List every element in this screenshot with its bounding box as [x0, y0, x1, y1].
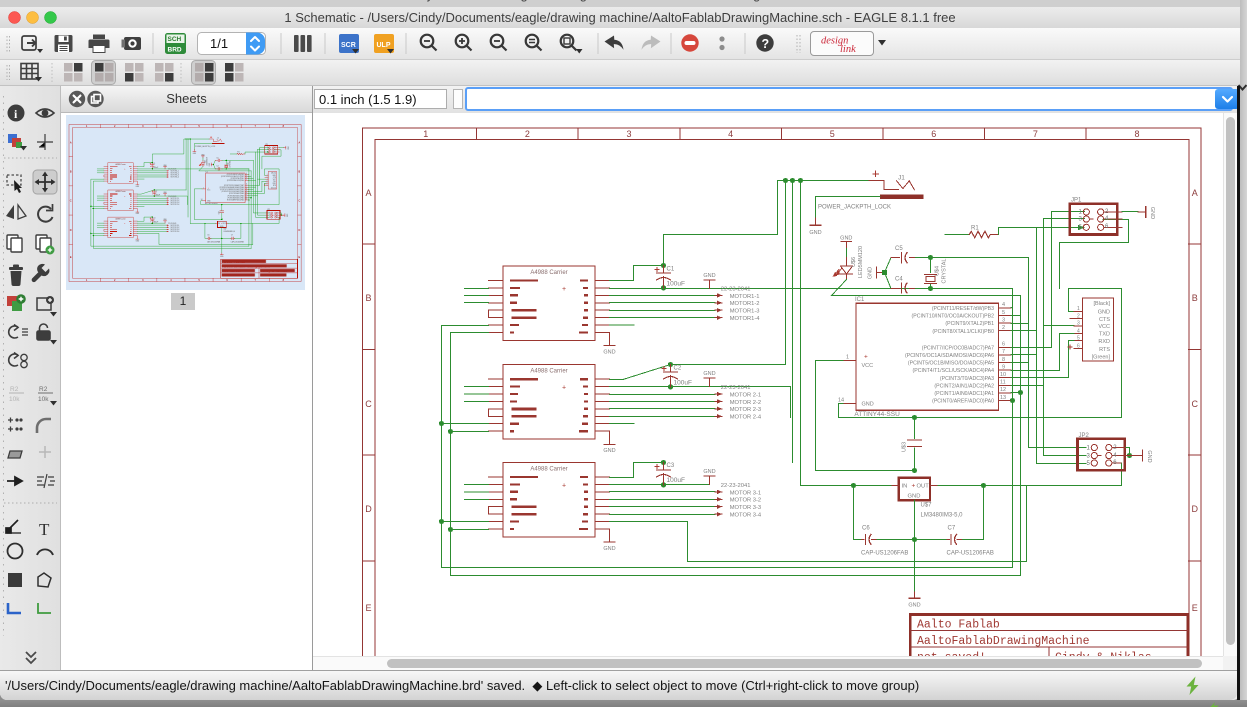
- FTDI serial header U$5: [1068, 298, 1113, 361]
- header JP2: [1078, 433, 1139, 470]
- replace/lock: [37, 324, 57, 345]
- status bar: [0, 670, 1237, 700]
- svg-text:4: 4: [1077, 328, 1080, 334]
- svg-text:5: 5: [1002, 310, 1005, 316]
- svg-text:GND: GND: [1149, 207, 1155, 219]
- junction bus A to drv3: [439, 519, 444, 524]
- svg-text:C: C: [365, 399, 372, 409]
- wire pin12 riser V2: [1011, 296, 1021, 576]
- optimize: [7, 477, 22, 485]
- svg-text:(PCINT1/AIN0/ADC1)PA1: (PCINT1/AIN0/ADC1)PA1: [934, 391, 994, 397]
- delete: [9, 265, 23, 287]
- invoke: [37, 296, 57, 317]
- svg-text:MOTOR 3-4: MOTOR 3-4: [730, 513, 762, 519]
- svg-text:11: 11: [1000, 380, 1006, 386]
- svg-text:C6: C6: [862, 526, 870, 532]
- svg-text:GND: GND: [868, 267, 874, 279]
- title bar: [0, 7, 1240, 29]
- svg-text:4: 4: [1002, 302, 1005, 308]
- svg-text:4: 4: [728, 129, 733, 139]
- info: [8, 105, 25, 122]
- svg-text:ATTINY44-SSU: ATTINY44-SSU: [854, 411, 900, 418]
- ground at JP1 (rotated): [1138, 206, 1155, 219]
- svg-text:(PCINT6/OC1A/SDA/MOSI/ADC6)PA6: (PCINT6/OC1A/SDA/MOSI/ADC6)PA6: [905, 353, 994, 359]
- copy: [7, 235, 22, 252]
- svg-text:T: T: [39, 520, 50, 539]
- wire pin2: [1011, 330, 1037, 332]
- svg-text:MOTOR1-3: MOTOR1-3: [730, 309, 760, 315]
- undo icon: [605, 36, 624, 50]
- wire jack sleeve to ground: [816, 197, 880, 219]
- svg-text:A: A: [365, 188, 371, 198]
- junction on +12V top bus at dropper 4: [798, 178, 803, 183]
- design link button: [811, 32, 887, 56]
- svg-text:5: 5: [830, 129, 835, 139]
- svg-text:D: D: [365, 504, 372, 514]
- junction on +12V top bus at dropper 2: [783, 178, 788, 183]
- svg-text:2: 2: [1002, 325, 1005, 331]
- stop icon: [681, 34, 698, 51]
- wire pin5: [1011, 315, 1021, 317]
- junction bus B to drv3: [448, 527, 453, 532]
- drawing frame: [363, 128, 1202, 695]
- svg-text:MOTOR1-4: MOTOR1-4: [730, 316, 761, 322]
- sheets panel: [61, 86, 313, 670]
- svg-text:LED5MM120: LED5MM120: [858, 246, 864, 278]
- svg-text:CTS: CTS: [1099, 317, 1110, 323]
- svg-text:R2: R2: [39, 386, 48, 393]
- zoom in icon: [456, 35, 472, 51]
- junction regulator input / C6 branch: [851, 483, 856, 488]
- junction JP2 pin4 gnd: [1127, 453, 1132, 458]
- svg-text:(PCINT11/RESET/dW)PB3: (PCINT11/RESET/dW)PB3: [932, 306, 994, 312]
- svg-text:3: 3: [1079, 217, 1083, 223]
- svg-text:1: 1: [1077, 306, 1080, 312]
- redo icon (disabled): [642, 36, 661, 50]
- voltage regulator U$7 LM3480IM3-5,0: [892, 478, 963, 519]
- wire regulator input rail: [801, 463, 1122, 486]
- polygonize: [8, 451, 22, 458]
- svg-text:C: C: [1192, 399, 1199, 409]
- svg-text:1: 1: [1087, 446, 1091, 452]
- wire bus A taps to drv2/drv3: [442, 424, 489, 522]
- wire pin9 to FTDI TXD: [1011, 334, 1060, 371]
- SCH/BRD badge: [165, 33, 186, 54]
- svg-text:U$4: U$4: [935, 266, 941, 276]
- svg-text:VCC: VCC: [862, 363, 874, 369]
- svg-text:U$6: U$6: [851, 257, 857, 267]
- wire JP1 pin1 feed: [1051, 212, 1053, 348]
- header JP1: [1070, 198, 1122, 235]
- svg-text:C4: C4: [895, 276, 903, 282]
- svg-text:(PCINT8/XTAL1/CLKI)PB0: (PCINT8/XTAL1/CLKI)PB0: [932, 329, 994, 335]
- microcontroller IC1 ATTINY44-SSU: [838, 297, 1011, 418]
- svg-text:10k: 10k: [38, 396, 49, 403]
- motor 1 header arrows + labels: [715, 287, 760, 323]
- capacitor C5: [891, 246, 931, 263]
- svg-text:1/1: 1/1: [210, 36, 228, 51]
- miter: [37, 419, 51, 433]
- wrench: [32, 264, 50, 282]
- svg-text:CAP-US1206FAB: CAP-US1206FAB: [861, 551, 908, 557]
- svg-text:(PCINT10/INT0/OC0A/CKOUT)PB2: (PCINT10/INT0/OC0A/CKOUT)PB2: [912, 314, 995, 320]
- wire pin3: [1011, 323, 1029, 325]
- svg-text:MOTOR 2-4: MOTOR 2-4: [730, 415, 762, 421]
- add part: [7, 294, 26, 311]
- svg-text:10: 10: [1000, 372, 1006, 378]
- wire pin10 to FTDI RXD: [1011, 341, 1069, 378]
- resistor R1: [945, 225, 1085, 238]
- svg-text:6: 6: [1077, 344, 1080, 350]
- svg-text:link: link: [840, 44, 856, 55]
- svg-text:MOTOR 2-3: MOTOR 2-3: [730, 407, 761, 413]
- stepper driver module 3 (A4988 Carrier): [489, 463, 616, 553]
- zoom select icon: [491, 35, 507, 51]
- capacitor C3 100uF: [655, 460, 685, 488]
- split (disabled): [39, 446, 51, 458]
- svg-text:1: 1: [423, 129, 428, 139]
- wire drv3 motor pins: [610, 492, 716, 515]
- wire drv1 VMOT pin to C1: [610, 265, 664, 280]
- svg-text:7: 7: [1033, 129, 1038, 139]
- image/camera icon: [122, 37, 142, 50]
- wire FTDI TXD/RXD tails: [1060, 334, 1074, 341]
- svg-text:(PCINT9/XTAL2)PB1: (PCINT9/XTAL2)PB1: [945, 321, 994, 327]
- wire drv1 GND pin to C1 bottom / GND rail: [610, 288, 1013, 290]
- svg-text:LM3480IM3-5,0: LM3480IM3-5,0: [921, 513, 964, 519]
- svg-text:CRYSTAL: CRYSTAL: [942, 259, 948, 284]
- pin 1 VCC stub: [843, 360, 856, 362]
- wire V4: R1 net to JP2 pin5: [1037, 228, 1087, 464]
- gateswap: [9, 353, 28, 368]
- crystal U$4: [925, 255, 948, 291]
- svg-text:MOTOR 2-1: MOTOR 2-1: [730, 392, 761, 398]
- svg-text:+: +: [864, 354, 868, 361]
- wire IC1 VCC to 5V rail: [816, 361, 915, 471]
- value R2/10k disabled: [9, 386, 24, 403]
- svg-text:D: D: [1192, 504, 1199, 514]
- svg-text:SCH: SCH: [168, 36, 182, 43]
- svg-text:13: 13: [1000, 395, 1006, 401]
- wire bus A riser: [1026, 486, 1028, 562]
- wire cap common diagonals: [885, 258, 892, 289]
- ground at JP2 (rotated): [1130, 450, 1153, 463]
- pinswap: [9, 325, 28, 339]
- pin 14 GND stub: [843, 402, 856, 404]
- wire left vertical bus B (dir chain): [451, 333, 1021, 576]
- paste: [36, 235, 55, 255]
- svg-text:3: 3: [1002, 317, 1005, 323]
- svg-text:GND: GND: [840, 236, 852, 242]
- capacitor C8 decoupling under IC1: [902, 418, 922, 471]
- background (Board) window slivers: [0, 0, 1247, 7]
- right pin stubs: [999, 308, 1011, 401]
- junction IC1 gnd rail / C8: [912, 415, 917, 420]
- pin array: [8, 418, 23, 432]
- svg-text:OUT: OUT: [917, 483, 930, 489]
- title block: [910, 615, 1188, 684]
- svg-text:IC1: IC1: [855, 297, 865, 303]
- SCR badge: [339, 34, 359, 54]
- grid icon: [21, 64, 38, 80]
- circle tool: [8, 544, 23, 559]
- wire LED anode net: [832, 280, 1021, 296]
- svg-text:2: 2: [1077, 314, 1080, 320]
- wire pin7: [1011, 354, 1037, 356]
- wire bus B taps to drv2/drv3: [451, 432, 489, 530]
- svg-text:C5: C5: [895, 246, 903, 252]
- svg-text:GND: GND: [908, 603, 920, 609]
- stepper driver module 2 (A4988 Carrier): [489, 365, 616, 455]
- svg-text:SCR: SCR: [341, 42, 356, 49]
- black window edge: [1237, 86, 1240, 700]
- junction IC1 pin13 to riser V1: [1010, 398, 1015, 403]
- svg-text:6: 6: [931, 129, 936, 139]
- left tool palette: [0, 86, 61, 670]
- svg-text:BRD: BRD: [168, 47, 182, 54]
- export icon: [22, 36, 36, 50]
- vertical scrollbar: [1223, 113, 1237, 656]
- canvas top bar: coordinates + command combo: [313, 86, 1240, 113]
- svg-text:3: 3: [1077, 321, 1080, 327]
- capacitor C1 100uF: [655, 263, 685, 291]
- wire IC right pin fan to channel verticals: [1011, 212, 1129, 576]
- svg-text:3: 3: [626, 129, 631, 139]
- arc tool: [37, 549, 53, 555]
- svg-text:IN: IN: [902, 483, 908, 489]
- mirror: [6, 205, 26, 219]
- svg-text:U$7: U$7: [921, 503, 933, 509]
- svg-text:MOTOR 3-2: MOTOR 3-2: [730, 498, 761, 504]
- svg-text:AaltoFablabDrawingMachine: AaltoFablabDrawingMachine: [917, 635, 1090, 648]
- svg-text:R2: R2: [10, 386, 19, 393]
- capacitor C2 100uF: [662, 362, 692, 390]
- svg-text:B: B: [1192, 293, 1198, 303]
- svg-text:ULP: ULP: [377, 42, 391, 49]
- toolbar row 2: [0, 59, 1240, 86]
- wire drv2 enable stub: [610, 423, 634, 425]
- svg-text:22-23-2041: 22-23-2041: [721, 483, 751, 489]
- svg-text:C3: C3: [667, 463, 675, 469]
- print icon: [89, 35, 110, 53]
- wire drv3 VMOT pin to C3: [610, 463, 664, 478]
- wire FTDI VCC: [1044, 325, 1074, 327]
- zoom redraw icon: [561, 35, 577, 51]
- ground at regulator: [908, 592, 920, 609]
- wire +12V top bus with droppers: [664, 181, 869, 486]
- expand chevron: [26, 652, 36, 663]
- layers: [8, 134, 27, 151]
- svg-text:(PCINT4/T1/SCL/USCK/ADC4)PA4: (PCINT4/T1/SCL/USCK/ADC4)PA4: [913, 368, 995, 374]
- svg-text:1: 1: [846, 355, 849, 361]
- junction bus A to drv2: [439, 421, 444, 426]
- thumbnail: [66, 115, 305, 290]
- horizontal scrollbar: [313, 656, 1223, 670]
- svg-text:MOTOR1-2: MOTOR1-2: [730, 301, 760, 307]
- svg-text:B: B: [365, 293, 371, 303]
- wire drv3 input nets left: [465, 484, 489, 499]
- wire JP1 pin2 to ground stub: [1122, 211, 1138, 213]
- signal/line: [6, 520, 21, 533]
- power jack J1 POWER_JACKPTH_LOCK: [818, 171, 923, 210]
- wire pin4: [1011, 307, 1013, 309]
- motor 2 header arrows + labels: [715, 385, 762, 421]
- stepper driver module 1 (A4988 Carrier): [489, 266, 616, 356]
- svg-text:?: ?: [762, 37, 770, 51]
- bus tool: [8, 603, 21, 613]
- wire crystal nets to channel: [931, 258, 1029, 289]
- wire drv2 input nets left: [465, 387, 489, 402]
- zoom out icon: [421, 35, 437, 51]
- ground at C1: [703, 273, 715, 289]
- mark cross: [37, 134, 53, 150]
- options dots: [719, 36, 724, 41]
- move (active): [33, 170, 57, 194]
- svg-text:100uF: 100uF: [674, 380, 692, 387]
- ground at C2: [703, 371, 715, 387]
- eye: [36, 109, 54, 117]
- wire drv3 enable to +12V bus A: [610, 522, 1027, 562]
- svg-text:C1: C1: [667, 267, 675, 273]
- save icon: [55, 35, 73, 52]
- svg-text:(PCINT0/AREF/ADC0)PA0: (PCINT0/AREF/ADC0)PA0: [932, 399, 994, 405]
- svg-text:100uF: 100uF: [667, 281, 685, 288]
- ground at J1: [809, 218, 821, 236]
- capacitor C4: [891, 276, 931, 293]
- toolbar row 1: [0, 28, 1240, 59]
- svg-text:8: 8: [1002, 357, 1005, 363]
- wire JP2 pin2 to pin4/ground: [1126, 448, 1130, 456]
- svg-text:MOTOR 2-2: MOTOR 2-2: [730, 400, 761, 406]
- wire left vertical bus A (step chain): [442, 326, 1013, 568]
- motor 3 header arrows + labels: [715, 483, 762, 519]
- svg-text:GND: GND: [1146, 450, 1152, 462]
- wire drv2 motor pins: [610, 395, 716, 417]
- wire drv1 enable stub: [610, 324, 634, 326]
- ground at C3: [703, 469, 715, 485]
- svg-text:(PCINT7/ICP/OC0B/ADC7)PA7: (PCINT7/ICP/OC0B/ADC7)PA7: [922, 345, 994, 351]
- junction VCC rail / C8: [912, 468, 917, 473]
- wire JP1 pin3 feed: [1044, 218, 1085, 220]
- svg-text:TXD: TXD: [1099, 332, 1110, 338]
- svg-text:14: 14: [838, 397, 844, 403]
- svg-text:100uF: 100uF: [667, 477, 685, 484]
- svg-text:22-23-2041: 22-23-2041: [721, 287, 751, 293]
- svg-text:E: E: [365, 603, 371, 613]
- svg-text:C2: C2: [674, 366, 682, 372]
- junction bus B to drv2: [448, 429, 453, 434]
- junction C6/C7 gnd row: [912, 537, 917, 542]
- svg-text:C7: C7: [948, 526, 956, 532]
- svg-text:POWER_JACKPTH_LOCK: POWER_JACKPTH_LOCK: [818, 205, 891, 211]
- wire regulator gnd leg: [914, 500, 916, 592]
- wire drv2 GND pin to C2 bottom: [610, 387, 791, 418]
- svg-text:5: 5: [1087, 461, 1091, 467]
- svg-text:GND: GND: [809, 230, 821, 236]
- wire C6 branch: [854, 486, 984, 540]
- svg-text:[Black]: [Black]: [1093, 301, 1110, 307]
- svg-text:3: 3: [1087, 454, 1091, 460]
- wire drv3 GND pin to C3 bottom: [610, 484, 710, 486]
- svg-text:(PCINT2/AIN1/ADC2)PA2: (PCINT2/AIN1/ADC2)PA2: [934, 383, 994, 389]
- svg-text:MOTOR 3-1: MOTOR 3-1: [730, 490, 761, 496]
- window layout icons: [63, 62, 84, 83]
- svg-text:GND: GND: [908, 494, 921, 500]
- sheet spinner 1/1: [198, 33, 266, 55]
- value R2/10k: [38, 386, 57, 406]
- ULP badge: [374, 34, 394, 54]
- capacitor C7: [947, 526, 994, 557]
- svg-text:MOTOR 3-3: MOTOR 3-3: [730, 505, 761, 511]
- library bars icon: [294, 35, 312, 52]
- main canvas: [313, 113, 1223, 656]
- svg-text:GND: GND: [1098, 310, 1110, 316]
- svg-text:12: 12: [1000, 387, 1006, 393]
- svg-text:[Green]: [Green]: [1092, 355, 1111, 361]
- svg-text:VCC: VCC: [1098, 324, 1110, 330]
- junction regulator output / C7 branch: [981, 483, 986, 488]
- svg-text:(PCINT3/T0/ADC3)PA3: (PCINT3/T0/ADC3)PA3: [940, 376, 994, 382]
- wire drv2 VMOT pin diagonal to C2: [610, 365, 786, 380]
- wire V5: JP1 pin3 to JP2 pin3: [1044, 219, 1087, 456]
- wire pin6 to JP1 pin1: [1011, 212, 1085, 348]
- wire pin11: [1011, 385, 1044, 387]
- svg-text:U$3: U$3: [902, 442, 908, 452]
- wire JP1 pin4 loop to gnd rail: [1060, 220, 1129, 289]
- svg-text:9: 9: [1002, 364, 1005, 370]
- svg-text:+: +: [912, 483, 916, 490]
- split wires: [37, 474, 55, 488]
- svg-text:Aalto Fablab: Aalto Fablab: [917, 619, 1000, 632]
- wire pin13 riser V1: [1011, 289, 1013, 568]
- junction on +12V top bus at dropper 3: [790, 178, 795, 183]
- wire V3: crystal net to JP2 pin1: [1029, 258, 1087, 448]
- svg-text:CAP-US1206FAB: CAP-US1206FAB: [947, 551, 994, 557]
- svg-text:22-23-2041: 22-23-2041: [721, 385, 751, 391]
- net tool: [38, 603, 51, 613]
- LED U$6 LED5MM with ground: [833, 236, 864, 280]
- wire drv1 input nets left: [465, 289, 489, 303]
- svg-text:8: 8: [1134, 129, 1139, 139]
- select group: [7, 175, 21, 185]
- wire pin8: [1011, 362, 1029, 364]
- svg-text:J1: J1: [898, 175, 905, 182]
- svg-text:E: E: [1192, 603, 1198, 613]
- svg-text:A: A: [1192, 188, 1198, 198]
- ground at crystal caps (rotated): [868, 267, 888, 279]
- svg-text:MOTOR1-1: MOTOR1-1: [730, 294, 760, 300]
- svg-text:GND: GND: [862, 402, 874, 408]
- svg-text:RTS: RTS: [1099, 347, 1110, 353]
- polygon tool: [38, 573, 51, 587]
- wire IC1 GND down to gnd rail: [839, 289, 1122, 418]
- zoom fit icon: [526, 35, 542, 51]
- help icon: [756, 34, 773, 51]
- junction IC1 pin12 to riser V2: [1018, 390, 1023, 395]
- capacitor C6: [861, 526, 908, 557]
- svg-text:RXD: RXD: [1098, 339, 1110, 345]
- svg-text:(PCINT5/OC1B/MISO/DO/ADC5)PA5: (PCINT5/OC1B/MISO/DO/ADC5)PA5: [908, 361, 994, 367]
- svg-text:5: 5: [1077, 336, 1080, 342]
- rotate: [38, 204, 52, 222]
- svg-text:6: 6: [1002, 342, 1005, 348]
- svg-text:1: 1: [1079, 210, 1083, 216]
- svg-text:7: 7: [1002, 349, 1005, 355]
- svg-text:2: 2: [525, 129, 530, 139]
- wire drv1 motor pins: [610, 296, 716, 318]
- svg-text:10k: 10k: [9, 396, 20, 403]
- rect tool: [8, 573, 22, 587]
